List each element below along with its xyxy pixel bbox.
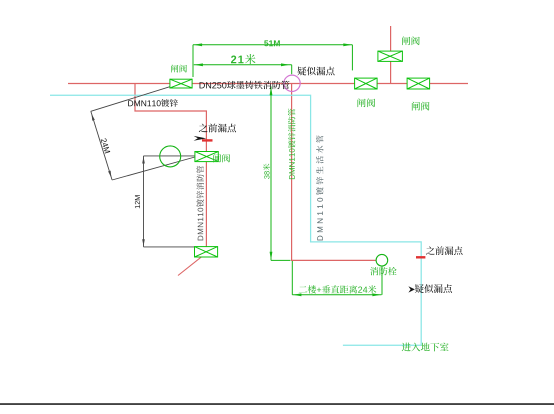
label 进入地下室	[402, 343, 449, 352]
dimension 二楼+垂直距离24米 (green)	[292, 261, 382, 295]
dimension 51M (green)	[193, 45, 352, 77]
label DMN110镀锌	[128, 99, 178, 107]
wire: basement entry stub (cyan)	[343, 344, 421, 346]
wire: lower-left diagonal stub (red)	[178, 252, 208, 276]
label 闸阀 (right valve 1)	[357, 98, 375, 107]
label 闸阀 (left branch valve)	[213, 154, 230, 162]
page border bottom line	[0, 403, 554, 405]
dimension label 二楼+垂直距离24米	[299, 285, 377, 293]
wire: domestic water pipe (cyan) main run	[50, 95, 421, 345]
suspected leak circle 疑似漏点 (magenta)	[284, 75, 300, 91]
dimension 12M (black vertical)	[144, 156, 195, 247]
valve: gate valve right-2 on main line 闸阀	[407, 78, 430, 89]
valve: gate valve on left branch 闸阀	[195, 152, 218, 162]
pipe label DMN110镀锌生活水管 (cyan pipe, rotated)	[316, 135, 323, 240]
dimension label 38米 (rotated)	[263, 164, 270, 179]
dimension 38米 (green vertical)	[271, 86, 291, 260]
wire: top-right riser (red)	[390, 26, 392, 84]
label DN250球墨铸铁消防管	[200, 81, 290, 89]
dimension 24M (black diagonal)	[91, 111, 112, 180]
label 消防栓	[370, 267, 396, 275]
leak marker arrow bottom-right (black)	[408, 286, 415, 292]
wire: main fire pipe horizontal (red)	[68, 83, 468, 85]
extension line 24M to lower valve (black)	[112, 157, 195, 180]
label 闸阀 (right valve 2)	[412, 102, 430, 111]
leader from main-line valve to 24M dimension (black)	[91, 87, 171, 112]
label 疑似漏点 (top)	[297, 67, 334, 76]
wire: left branch drop (red)	[135, 84, 206, 251]
label 之前漏点 (left)	[199, 124, 236, 133]
pipe label DMN110镀锌消防管 (left branch, rotated)	[196, 166, 203, 241]
valve: gate valve on top-right riser 闸阀	[378, 51, 403, 61]
label 闸阀 (riser valve)	[402, 36, 420, 45]
wire: right fire-pipe riser + run to hydrant (red)	[292, 84, 377, 261]
dimension label 51M	[264, 40, 280, 46]
label 疑似漏点 (bottom)	[415, 284, 452, 293]
label 之前漏点 (right)	[426, 246, 462, 255]
valve: gate valve right-1 on main line 闸阀	[355, 78, 378, 89]
valve: gate valve on main line 闸阀	[170, 79, 192, 88]
dimension label 21米	[231, 54, 256, 64]
leak marker dash on left branch (red)	[202, 139, 213, 141]
highlight circle around left branch valve (green)	[160, 146, 181, 167]
label 闸阀 (top-left valve)	[171, 65, 187, 73]
dimension 21米 (green)	[194, 65, 292, 74]
dimension label 24M (rotated)	[101, 138, 111, 154]
leak marker arrow (black)	[194, 136, 207, 141]
dimension label 12M (rotated)	[135, 195, 140, 208]
valve: bottom valve on left branch	[195, 247, 218, 257]
leak marker dash on cyan pipe (red)	[416, 256, 425, 258]
fire hydrant circle 消防栓 (green)	[376, 254, 388, 266]
pipe label DMN110镀锌消防管 (right riser, rotated)	[288, 109, 295, 180]
